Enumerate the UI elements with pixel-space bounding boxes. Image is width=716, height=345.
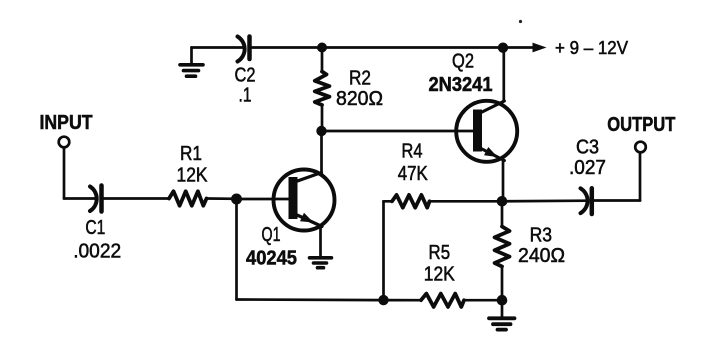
wire top rail right segment <box>322 46 503 49</box>
svg-text:47K: 47K <box>398 163 429 185</box>
resistor R2 <box>315 48 330 132</box>
svg-text:C1: C1 <box>85 217 105 239</box>
svg-text:C3: C3 <box>576 137 599 159</box>
capacitor C3 <box>581 188 592 214</box>
svg-text:240Ω: 240Ω <box>518 245 565 267</box>
wire R4 left stub <box>384 200 393 203</box>
svg-text:.1: .1 <box>239 85 252 107</box>
wire R5 to ground node <box>464 299 502 302</box>
wire bottom rail left <box>237 298 384 301</box>
svg-text:INPUT: INPUT <box>40 112 93 134</box>
svg-text:.0022: .0022 <box>73 241 121 263</box>
svg-text:R5: R5 <box>429 242 451 264</box>
wire Q1 base lead <box>237 198 290 201</box>
wire R1 to node <box>207 197 237 200</box>
node junction bottom ground <box>497 295 508 306</box>
transistor Q1 <box>274 131 335 257</box>
svg-text:.027: .027 <box>569 157 606 179</box>
svg-text:C2: C2 <box>235 65 256 87</box>
svg-text:12K: 12K <box>424 263 456 285</box>
wire R4 left drop <box>382 201 385 300</box>
wire output riser <box>639 153 642 201</box>
svg-text:820Ω: 820Ω <box>336 88 383 110</box>
svg-text:2N3241: 2N3241 <box>429 74 493 96</box>
svg-text:R1: R1 <box>180 143 202 165</box>
terminal OUTPUT <box>635 142 646 153</box>
resistor R4 <box>392 195 430 208</box>
resistor R3 <box>495 201 510 300</box>
svg-text:+ 9 – 12V: + 9 – 12V <box>555 38 628 58</box>
wire top rail middle segment <box>252 46 323 49</box>
svg-text:OUTPUT: OUTPUT <box>607 114 675 136</box>
node junction Q1 base <box>231 194 242 205</box>
ground G2 (Q1 emitter) <box>310 258 332 268</box>
resistor R1 <box>169 191 207 205</box>
wire top rail left segment <box>192 46 244 49</box>
svg-text:R3: R3 <box>530 225 552 247</box>
wire C1 to R1 <box>104 197 170 200</box>
ground G1 <box>180 48 203 77</box>
supply arrowhead <box>533 43 547 53</box>
svg-text:Q1: Q1 <box>262 224 281 246</box>
wire R4 to emitter node <box>430 200 503 203</box>
speck artifact <box>519 20 522 23</box>
wire input to C1 <box>64 197 96 200</box>
resistor R5 <box>421 294 464 307</box>
node junction Q2 emitter <box>497 196 508 207</box>
svg-text:Q2: Q2 <box>452 51 474 73</box>
wire supply arrow lead <box>503 46 534 49</box>
node junction R2 top <box>317 43 327 53</box>
svg-text:12K: 12K <box>177 165 209 187</box>
svg-text:R2: R2 <box>349 68 371 90</box>
wire Q2 base lead <box>322 130 474 133</box>
ground G3 <box>489 300 515 329</box>
node junction Q1 collector / Q2 base <box>316 126 326 136</box>
transistor Q2 <box>456 48 517 202</box>
wire bottom rail to R5 <box>384 299 422 302</box>
wire emitter node to C3 <box>502 199 586 202</box>
node junction bottom R4 <box>378 295 388 305</box>
wire feedback drop <box>235 199 238 300</box>
capacitor C2 <box>238 37 250 62</box>
wire C3 to output corner <box>594 199 640 202</box>
terminal INPUT <box>59 137 70 148</box>
svg-text:R4: R4 <box>402 141 423 163</box>
svg-text:40245: 40245 <box>246 247 297 269</box>
wire input drop <box>63 148 66 199</box>
capacitor C1 <box>90 186 102 212</box>
node junction Q2 collector <box>498 43 508 53</box>
